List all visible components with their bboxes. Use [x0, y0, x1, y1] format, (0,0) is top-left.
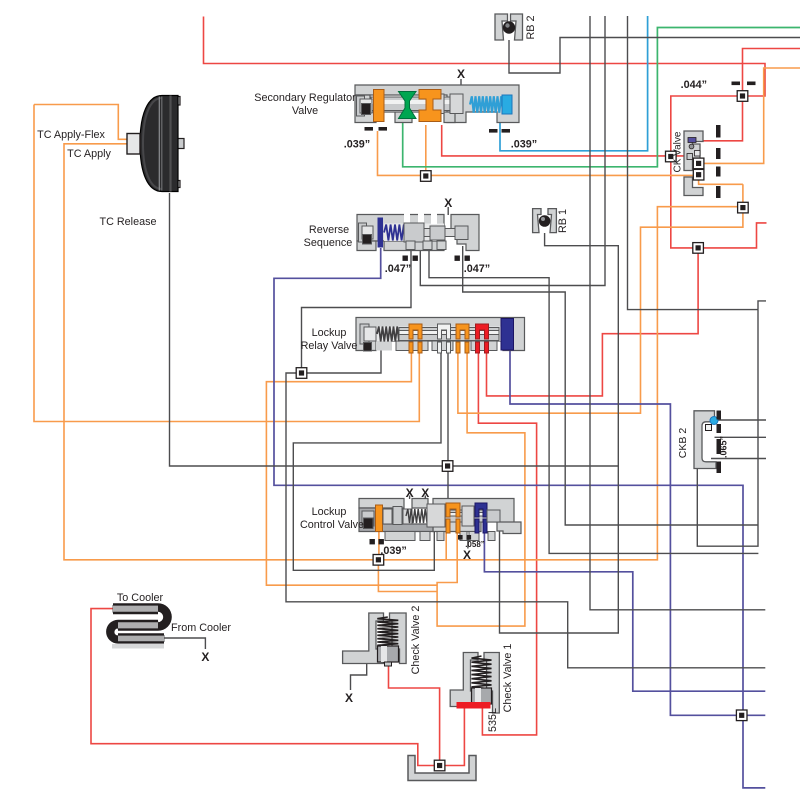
wire navy lockup control line: [484, 531, 765, 691]
reverse sequence valve spring: [384, 225, 406, 241]
wire gray lockup relay port1 loop to lockup control: [293, 348, 441, 570]
secondary regulator valve X port: [0, 0, 1, 1]
svg-text:X: X: [457, 67, 465, 81]
wire gray RS X stub: [447, 207, 449, 215]
junction node gray 301: [296, 368, 307, 379]
lockup control valve spool: [427, 504, 500, 527]
svg-text:Check Valve 2: Check Valve 2: [410, 606, 422, 675]
reverse sequence valve left adjuster: [359, 223, 374, 244]
wire red check valve 2 to tray: [389, 663, 440, 766]
wire navy reverse sequence line: [274, 248, 765, 788]
svg-text:.047”: .047”: [385, 263, 411, 275]
ball RB1: [539, 215, 551, 227]
wire red lockup relay R1 to check valve 1: [478, 348, 536, 735]
orifice .058 LCV squares: [458, 535, 471, 540]
wire orange lockup relay O1a loop: [266, 348, 437, 585]
ball RB2: [503, 21, 515, 33]
wire orange lockup control port2 jog: [437, 348, 525, 626]
wire orange long converter feed: [378, 131, 699, 175]
svg-text:Sequence: Sequence: [304, 237, 353, 249]
wire gray CKB2 stub top: [715, 419, 767, 421]
junction node red mid: [666, 151, 677, 162]
svg-text:Relay Valve: Relay Valve: [301, 340, 358, 352]
junction node red 248: [693, 243, 704, 254]
check valve 1 body: [450, 653, 499, 714]
svg-text:.047”: .047”: [464, 263, 490, 275]
reverse sequence valve navy seat: [378, 218, 384, 248]
svg-text:.065”: .065”: [719, 436, 729, 458]
wire red main feed from top: [204, 17, 767, 248]
wire orange lockup control port1 stub: [445, 531, 447, 560]
svg-text:RB 1: RB 1: [557, 209, 569, 233]
check valve 2 spring: [377, 617, 398, 647]
reverse sequence valve bottom ports: [406, 241, 446, 250]
wire red SRV regulated out: [442, 125, 684, 156]
wire gray LCV X2 stub: [424, 496, 426, 500]
junction node navy 715: [736, 710, 747, 721]
check valve 1 spring: [472, 656, 492, 689]
svg-text:.039”: .039”: [380, 545, 406, 557]
svg-text:TC Apply-Flex: TC Apply-Flex: [37, 129, 105, 141]
lockup relay valve left end: [360, 324, 376, 351]
svg-text:Lockup: Lockup: [312, 327, 347, 339]
CKB2 square: [706, 425, 712, 431]
cooler coil: [106, 603, 172, 648]
lockup relay valve spring: [377, 327, 399, 342]
svg-text:Reverse: Reverse: [309, 224, 349, 236]
svg-text:CKB 2: CKB 2: [677, 428, 689, 459]
svg-text:Check Valve 1: Check Valve 1: [502, 644, 514, 713]
CK valve orifice bars: [716, 125, 721, 198]
lockup relay valve navy cap: [501, 319, 514, 351]
svg-text:To Cooler: To Cooler: [117, 592, 164, 604]
reverse sequence valve top notches: [404, 214, 437, 225]
reverse sequence valve spool: [404, 223, 468, 242]
svg-text:X: X: [444, 196, 452, 210]
lockup control valve orange clamp: [446, 503, 460, 517]
CKB2 ball: [710, 417, 718, 425]
wire orange TC apply-flex: [34, 105, 419, 422]
secondary regulator valve orange land 2: [419, 90, 441, 122]
junction node orange 379: [373, 555, 384, 566]
wire gray lockup control .058 X stub: [467, 536, 469, 549]
reverse sequence valve body: [357, 215, 479, 251]
check valve 2 piston: [378, 646, 399, 666]
lockup control valve navy clamp: [475, 503, 487, 517]
lockup control valve right plunger: [487, 510, 500, 522]
junction node red top: [737, 91, 748, 102]
junction node orange 4: [738, 202, 749, 213]
lockup relay valve red clamp: [476, 324, 489, 339]
check valve 2 body: [343, 613, 407, 664]
wire gray LCV X1 stub: [409, 496, 411, 500]
secondary regulator valve green land: [399, 92, 417, 119]
svg-text:X: X: [201, 650, 209, 664]
lockup relay valve orange clamp 2: [456, 324, 469, 339]
wire navy lockup relay cap line: [510, 350, 765, 715]
wire red feed from right edge: [743, 49, 800, 97]
lockup relay valve orange clamp 1: [409, 324, 422, 339]
orifice .047 RS right squares: [455, 256, 470, 261]
secondary regulator valve left adjuster: [357, 96, 373, 116]
wire red check valve 1 to tray: [91, 609, 464, 766]
CKB2 body: [694, 411, 716, 469]
svg-text:.039”: .039”: [344, 139, 370, 151]
svg-text:X: X: [345, 691, 353, 705]
wire orange CK valve lower branch: [458, 184, 743, 413]
secondary regulator valve spring: [470, 96, 503, 112]
wire gray node301 branch long: [286, 373, 765, 668]
ball seat RB1: [533, 209, 557, 233]
wire gray lockup relay port2 to lockup control top: [447, 348, 449, 499]
svg-text:From Cooler: From Cooler: [171, 622, 231, 634]
svg-text:TC Release: TC Release: [99, 216, 156, 228]
junction node tray: [434, 760, 445, 771]
torque converter apply port: [127, 134, 140, 155]
ball seat RB2: [495, 14, 523, 40]
lockup relay valve bottom rail: [396, 341, 497, 351]
lockup control valve plunger bits: [383, 507, 412, 525]
lockup control valve orange land: [376, 505, 383, 532]
wire gray RB2 line: [509, 38, 800, 74]
wire orange TC apply long line: [64, 144, 743, 560]
wire orange TC apply-flex port stub: [34, 105, 128, 140]
wire gray RS port D: [463, 246, 758, 525]
CKB2 orifice bars: [717, 411, 722, 474]
lockup relay valve white clamp: [438, 324, 451, 339]
bottom tray: [408, 756, 476, 781]
wire red branch to CK valve: [701, 96, 743, 141]
secondary regulator valve body: [355, 85, 519, 123]
wire gray vertical 605 to RS port B: [420, 16, 605, 286]
wire gray RS port C: [429, 246, 758, 553]
junction node CK valve B: [693, 169, 704, 180]
svg-text:CK Valve: CK Valve: [673, 131, 684, 172]
svg-text:.039”: .039”: [511, 139, 537, 151]
CK valve upper body: [684, 131, 703, 171]
check valve 1 red seat: [457, 702, 491, 709]
orifice .039 SRV left dashes: [365, 127, 388, 131]
wire gray SRV X stub: [460, 79, 462, 87]
check valve 1 piston: [472, 688, 492, 708]
orifice .039 LCV squares: [370, 539, 384, 544]
svg-text:.044”: .044”: [681, 79, 707, 91]
wire orange CK valve top branch: [699, 68, 800, 163]
lockup relay valve body: [356, 318, 525, 351]
junction node SRV orange: [421, 171, 432, 182]
lockup control valve spring: [406, 509, 427, 523]
wire gray from-cooler line: [164, 638, 205, 649]
svg-text:Valve: Valve: [292, 105, 318, 117]
wire gray check valve 2 X line: [351, 663, 367, 690]
wire cyan SRV spring port: [500, 16, 648, 151]
torque converter tabs: [172, 97, 184, 188]
wire gray TC release line: [170, 193, 619, 466]
wire gray RS port A to lockup relay left end: [302, 244, 412, 373]
orifice .047 RS left squares: [403, 256, 418, 261]
svg-text:535L: 535L: [487, 708, 499, 732]
lockup relay valve spool: [399, 328, 499, 341]
junction node gray TC release: [442, 461, 453, 472]
secondary regulator valve blue cap: [502, 95, 512, 114]
wire orange node 379 branch: [378, 560, 437, 592]
CK valve lower body: [684, 177, 703, 196]
wire red node-248 down to lockup relay red port: [487, 248, 699, 396]
svg-text:Lockup: Lockup: [312, 506, 347, 518]
wire gray vertical 590: [590, 16, 765, 610]
secondary regulator valve spool: [371, 94, 463, 114]
lockup control valve left end: [362, 511, 374, 529]
CK valve internals: [687, 138, 700, 160]
orifice .044 dashes: [732, 82, 756, 86]
wire gray 758 jog stub: [758, 301, 766, 310]
secondary regulator valve orange land 1: [374, 90, 385, 122]
wire orange lockup control left land drop: [378, 531, 380, 560]
wire gray vertical 627 to CKB2 bus: [628, 16, 759, 310]
wire gray RB1 line to lockup control: [500, 233, 619, 633]
svg-text:Control Valve: Control Valve: [300, 519, 364, 531]
lockup control valve body: [359, 499, 521, 534]
junction node CK valve A: [693, 158, 704, 169]
lockup control valve bottom rail: [385, 532, 495, 541]
orifice .039 SRV right dashes: [489, 129, 510, 133]
svg-text:TC Apply: TC Apply: [67, 148, 111, 160]
wire orange CK valve mid jog: [699, 175, 743, 185]
wire orange SRV mid port drop: [425, 125, 427, 176]
wire green SRV port: [403, 28, 800, 167]
wire gray CKB2 stub mid: [715, 436, 767, 438]
svg-text:RB 2: RB 2: [525, 15, 537, 39]
wire gray 758 down to CKB2: [697, 310, 758, 547]
svg-text:X: X: [463, 548, 471, 562]
torque converter body: [140, 96, 178, 192]
svg-text:Secondary Regulator: Secondary Regulator: [254, 92, 356, 104]
wire gray CKB2 stub bottom: [711, 458, 766, 460]
